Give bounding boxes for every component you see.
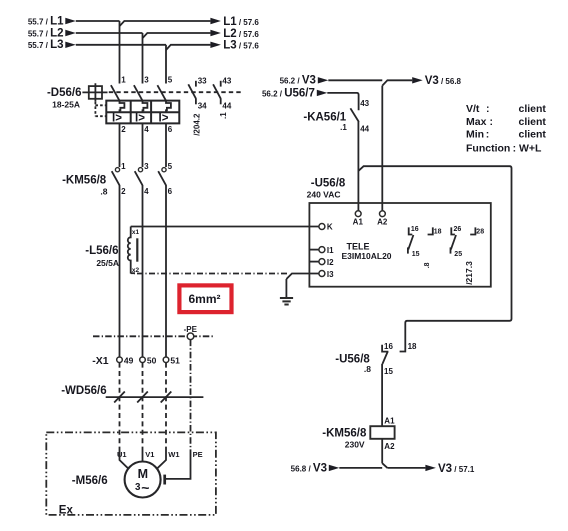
breaker aux contact 34 stub bbox=[195, 99, 197, 105]
current transformer L56/6 secondary coil bbox=[128, 227, 131, 274]
breaker thermal element pole 1 bbox=[120, 101, 125, 113]
svg-text:4: 4 bbox=[144, 187, 149, 196]
wire V3 bottom rail bbox=[339, 467, 425, 469]
relay internal contact 26 mark bbox=[451, 227, 455, 234]
relay terminal I1 bbox=[309, 246, 334, 255]
svg-text:2: 2 bbox=[121, 125, 126, 134]
wire CT x2 equipotential (dash-dot) bbox=[134, 273, 287, 275]
relay U56/8 box bbox=[309, 203, 490, 287]
current transformer core bar bbox=[136, 238, 138, 261]
contactor pole 1 (pins 1-2) bbox=[112, 162, 126, 196]
svg-text:.8: .8 bbox=[364, 364, 371, 374]
svg-text:240 VAC: 240 VAC bbox=[307, 189, 341, 199]
wire size callout 6mm2 (red box) bbox=[179, 285, 231, 312]
relay terminal A1 bbox=[353, 211, 364, 227]
svg-text:I1: I1 bbox=[327, 246, 334, 255]
svg-text:43: 43 bbox=[360, 99, 369, 108]
svg-text:I3: I3 bbox=[327, 270, 334, 279]
svg-text:49: 49 bbox=[124, 356, 134, 366]
breaker aux contact 33/34 blade bbox=[188, 84, 196, 99]
aux contact U56/8 16 mark bbox=[382, 345, 388, 352]
aux contact U56/8 16/15 blade bbox=[382, 352, 387, 364]
svg-text:55.7 / L2: 55.7 / L2 bbox=[28, 27, 64, 39]
svg-text:25/5A: 25/5A bbox=[96, 258, 119, 268]
wire motor stub W1 bbox=[157, 450, 166, 469]
svg-text:18-25A: 18-25A bbox=[52, 99, 80, 109]
node 55.7/L2 (incoming feeder L2) bbox=[28, 27, 76, 39]
svg-text:5: 5 bbox=[168, 162, 173, 171]
node 55.7/L1 (incoming feeder L1) bbox=[28, 15, 76, 27]
relay terminal A2 bbox=[377, 211, 388, 227]
svg-text:28: 28 bbox=[476, 229, 484, 236]
contactor pole 3 (pins 5-6) bbox=[158, 162, 172, 196]
breaker thermal element pole 2 bbox=[143, 101, 148, 113]
svg-text:3: 3 bbox=[144, 75, 149, 84]
Ex hazardous area box (dash-dot-dot) bbox=[46, 432, 216, 515]
svg-text:A2: A2 bbox=[377, 218, 388, 227]
breaker thermal element pole 3 bbox=[166, 101, 171, 113]
svg-text:Function: Function bbox=[466, 142, 510, 154]
svg-text:18: 18 bbox=[408, 342, 417, 351]
wire phase1 breaker to contactor bbox=[119, 123, 121, 167]
svg-text:43: 43 bbox=[222, 76, 231, 85]
function parameter table bbox=[466, 103, 546, 154]
breaker pole 2 contact blade bbox=[134, 85, 143, 101]
ground (earth symbol) bbox=[280, 298, 293, 305]
svg-text:.1: .1 bbox=[219, 112, 228, 119]
breaker aux contact 44 stub bbox=[220, 99, 222, 105]
breaker D56/6 trip line (dashed) bbox=[109, 91, 243, 93]
svg-text:51: 51 bbox=[170, 356, 180, 366]
svg-text:1: 1 bbox=[121, 162, 126, 171]
svg-text:55.7 / L1: 55.7 / L1 bbox=[28, 15, 64, 27]
relay internal contact 16 mark bbox=[409, 227, 413, 234]
svg-text:6mm²: 6mm² bbox=[188, 292, 220, 306]
wire phase2 drop to breaker bbox=[142, 33, 144, 84]
wire phase3 drop to breaker bbox=[165, 45, 167, 84]
relay terminal I2 bbox=[309, 258, 334, 267]
wire 15 to coil A1 bbox=[381, 364, 383, 426]
PE rail (dash-dot) bbox=[93, 335, 215, 337]
svg-text:W1: W1 bbox=[168, 450, 179, 459]
node 56.2/U56/7 (incoming) bbox=[262, 87, 327, 99]
svg-text:client: client bbox=[519, 129, 547, 141]
svg-text:15: 15 bbox=[412, 251, 420, 258]
breaker overload box bbox=[106, 101, 179, 124]
svg-text:230V: 230V bbox=[345, 440, 365, 450]
svg-text:-M56/6: -M56/6 bbox=[72, 475, 108, 487]
svg-text:I>: I> bbox=[159, 113, 169, 125]
svg-text::: : bbox=[513, 142, 517, 154]
svg-text:3: 3 bbox=[135, 482, 141, 493]
svg-text:56.2 / U56/7: 56.2 / U56/7 bbox=[262, 87, 315, 99]
wire L1 rail bbox=[76, 21, 211, 26]
svg-text:16: 16 bbox=[411, 226, 419, 233]
svg-text:PE: PE bbox=[193, 450, 203, 459]
cable WD56/6 slash core 1 bbox=[114, 392, 125, 403]
motor earth bar bbox=[163, 475, 166, 485]
wire L3 rail bbox=[76, 45, 211, 50]
svg-text:K: K bbox=[327, 223, 333, 232]
svg-text:-KM56/8: -KM56/8 bbox=[62, 175, 107, 187]
svg-text:Ex: Ex bbox=[59, 504, 74, 516]
relay internal contact 15 mark bbox=[407, 247, 409, 253]
wire phase1 contactor to X1 bbox=[119, 185, 121, 357]
wire phase2 breaker to contactor bbox=[142, 123, 144, 167]
svg-text:56.8 / V3: 56.8 / V3 bbox=[291, 463, 327, 475]
relay internal contact 25 mark bbox=[450, 247, 452, 253]
relay terminal K bbox=[319, 223, 333, 232]
svg-text:client: client bbox=[519, 103, 547, 115]
svg-text:V1: V1 bbox=[145, 450, 154, 459]
breaker aux contact 43 stub bbox=[220, 81, 222, 87]
breaker D56/6 mechanical linkage (dashed) bbox=[95, 102, 106, 117]
svg-text::: : bbox=[486, 129, 490, 141]
node 56.2/V3 (incoming) bbox=[280, 74, 329, 86]
svg-text:-KA56/1: -KA56/1 bbox=[303, 112, 346, 124]
wire U56/7 to KA contact bbox=[327, 93, 358, 110]
relay terminal I3 bbox=[319, 270, 334, 279]
relay internal contact 28 mark bbox=[470, 227, 475, 234]
terminal X1:50 bbox=[140, 356, 157, 366]
breaker pole 3 contact blade bbox=[157, 85, 166, 101]
svg-text:6: 6 bbox=[168, 187, 173, 196]
svg-text:/217.3: /217.3 bbox=[464, 261, 474, 285]
wire motor stub U1 bbox=[120, 450, 129, 469]
wire cable core W (dashed) bbox=[165, 363, 167, 450]
wire cable core V (dashed) bbox=[142, 363, 144, 450]
svg-text:-L56/6: -L56/6 bbox=[85, 245, 118, 257]
svg-text:TELE: TELE bbox=[346, 241, 369, 251]
breaker D56/6 manual operator bbox=[82, 83, 107, 102]
node V3/56.8 (outgoing) bbox=[412, 75, 461, 87]
wire phase2 contactor to X1 bbox=[142, 185, 144, 357]
svg-text:-X1: -X1 bbox=[92, 355, 109, 367]
node L1/57.6 (outgoing L1) bbox=[210, 16, 259, 28]
svg-text:V3 / 56.8: V3 / 56.8 bbox=[425, 75, 462, 87]
svg-text:A1: A1 bbox=[353, 218, 364, 227]
contactor pole 2 (pins 3-4) bbox=[135, 162, 149, 196]
svg-text:3: 3 bbox=[144, 162, 149, 171]
svg-text:-WD56/6: -WD56/6 bbox=[61, 385, 106, 397]
wire V3 rail bbox=[328, 80, 412, 85]
svg-text:16: 16 bbox=[384, 342, 393, 351]
svg-text:~: ~ bbox=[141, 480, 149, 496]
node L3/57.6 (outgoing L3) bbox=[210, 40, 259, 52]
node -PE terminal bbox=[184, 325, 198, 340]
svg-text:A2: A2 bbox=[384, 442, 395, 451]
wire junction to I3 bbox=[286, 274, 319, 280]
svg-text:55.7 / L3: 55.7 / L3 bbox=[28, 39, 64, 51]
svg-text:-KM56/8: -KM56/8 bbox=[322, 428, 367, 440]
svg-text:-U56/8: -U56/8 bbox=[311, 177, 346, 189]
svg-text:18: 18 bbox=[434, 229, 442, 236]
coil KM56/8 bbox=[370, 426, 394, 439]
svg-text:L2 / 57.6: L2 / 57.6 bbox=[223, 28, 259, 40]
svg-text:L3 / 57.6: L3 / 57.6 bbox=[223, 40, 259, 52]
node 55.7/L3 (incoming feeder L3) bbox=[28, 39, 76, 51]
svg-text:Min: Min bbox=[466, 129, 484, 141]
svg-text:.1: .1 bbox=[340, 123, 347, 132]
relay internal contact 18 mark bbox=[428, 227, 433, 234]
breaker pole 1 contact blade bbox=[111, 85, 120, 101]
wire cable core U (dashed) bbox=[119, 363, 121, 450]
wire KA56/1 to A1 bbox=[357, 122, 359, 211]
relay internal contact 26/25 blade bbox=[451, 235, 456, 249]
breaker aux contact 33 stub bbox=[195, 81, 197, 87]
wire CT x1 to relay K bbox=[131, 226, 319, 228]
svg-text:1: 1 bbox=[121, 75, 126, 84]
svg-text:I>: I> bbox=[135, 113, 145, 125]
wire PE into motor bbox=[165, 455, 191, 479]
terminal X1:51 bbox=[163, 356, 180, 366]
wire L2 rail bbox=[76, 33, 211, 38]
svg-text:I2: I2 bbox=[327, 258, 334, 267]
svg-text:E3IM10AL20: E3IM10AL20 bbox=[341, 251, 391, 261]
wire phase1 drop to breaker bbox=[119, 21, 121, 84]
svg-text:6: 6 bbox=[168, 125, 173, 134]
svg-text:25: 25 bbox=[454, 251, 462, 258]
cable WD56/6 slash core 2 bbox=[137, 392, 148, 403]
svg-text:U1: U1 bbox=[117, 450, 127, 459]
svg-text:2: 2 bbox=[121, 187, 126, 196]
svg-text:V3 / 57.1: V3 / 57.1 bbox=[438, 463, 475, 475]
svg-text:client: client bbox=[519, 116, 547, 128]
node V3/57.1 (outgoing) bbox=[425, 463, 474, 475]
svg-text:W+L: W+L bbox=[519, 142, 542, 154]
motor M56/6 (3-phase) bbox=[125, 462, 161, 498]
svg-text:4: 4 bbox=[144, 125, 149, 134]
svg-text::: : bbox=[486, 103, 490, 115]
wire drop to earth bbox=[285, 279, 287, 298]
svg-text:A1: A1 bbox=[384, 416, 395, 425]
svg-text::: : bbox=[490, 116, 494, 128]
svg-text:Max: Max bbox=[466, 116, 487, 128]
node L2/57.6 (outgoing L2) bbox=[210, 28, 259, 40]
svg-text:.8: .8 bbox=[424, 262, 431, 268]
cable WD56/6 line bbox=[106, 396, 204, 398]
svg-text:50: 50 bbox=[147, 356, 157, 366]
svg-text:L1 / 57.6: L1 / 57.6 bbox=[223, 16, 259, 28]
wire motor stub V1 bbox=[142, 450, 144, 462]
svg-text:44: 44 bbox=[222, 102, 231, 111]
relay internal contact 16/15 blade bbox=[408, 235, 413, 249]
svg-text:5: 5 bbox=[168, 75, 173, 84]
wire A2 drop bbox=[381, 86, 383, 211]
wire phase3 contactor to X1 bbox=[165, 185, 167, 357]
svg-text:.8: .8 bbox=[100, 186, 107, 196]
svg-text:x1: x1 bbox=[132, 229, 140, 236]
node 56.8/V3 (incoming) bbox=[291, 463, 340, 475]
svg-text:/204.2: /204.2 bbox=[193, 113, 202, 136]
wire PE drop (dash-dot) bbox=[190, 340, 192, 455]
svg-text:56.2 / V3: 56.2 / V3 bbox=[280, 74, 316, 86]
svg-text:-D56/6: -D56/6 bbox=[47, 87, 82, 99]
svg-text:34: 34 bbox=[198, 102, 207, 111]
svg-text:44: 44 bbox=[360, 124, 369, 133]
breaker aux contact 43/44 blade bbox=[213, 84, 221, 99]
wire phase3 breaker to contactor bbox=[165, 123, 167, 167]
svg-text:V/t: V/t bbox=[466, 103, 480, 115]
svg-text:I>: I> bbox=[112, 113, 122, 125]
wire coil A2 to V3 rail bbox=[382, 439, 387, 468]
relay contact KA56/1 blade bbox=[350, 108, 358, 122]
terminal X1:49 bbox=[117, 356, 134, 366]
svg-text:33: 33 bbox=[198, 76, 207, 85]
wire branch A1 to aux contact feed bbox=[358, 166, 511, 351]
cable WD56/6 slash core 3 bbox=[161, 392, 172, 403]
svg-text:15: 15 bbox=[384, 367, 393, 376]
svg-text:26: 26 bbox=[454, 226, 462, 233]
